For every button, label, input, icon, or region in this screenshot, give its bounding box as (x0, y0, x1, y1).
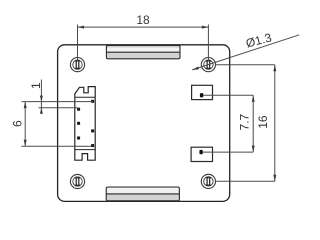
svg-text:6: 6 (10, 120, 24, 127)
svg-text:18: 18 (136, 13, 150, 27)
svg-text:16: 16 (256, 115, 270, 129)
svg-text:1: 1 (29, 82, 43, 89)
svg-text:7.7: 7.7 (238, 113, 252, 130)
